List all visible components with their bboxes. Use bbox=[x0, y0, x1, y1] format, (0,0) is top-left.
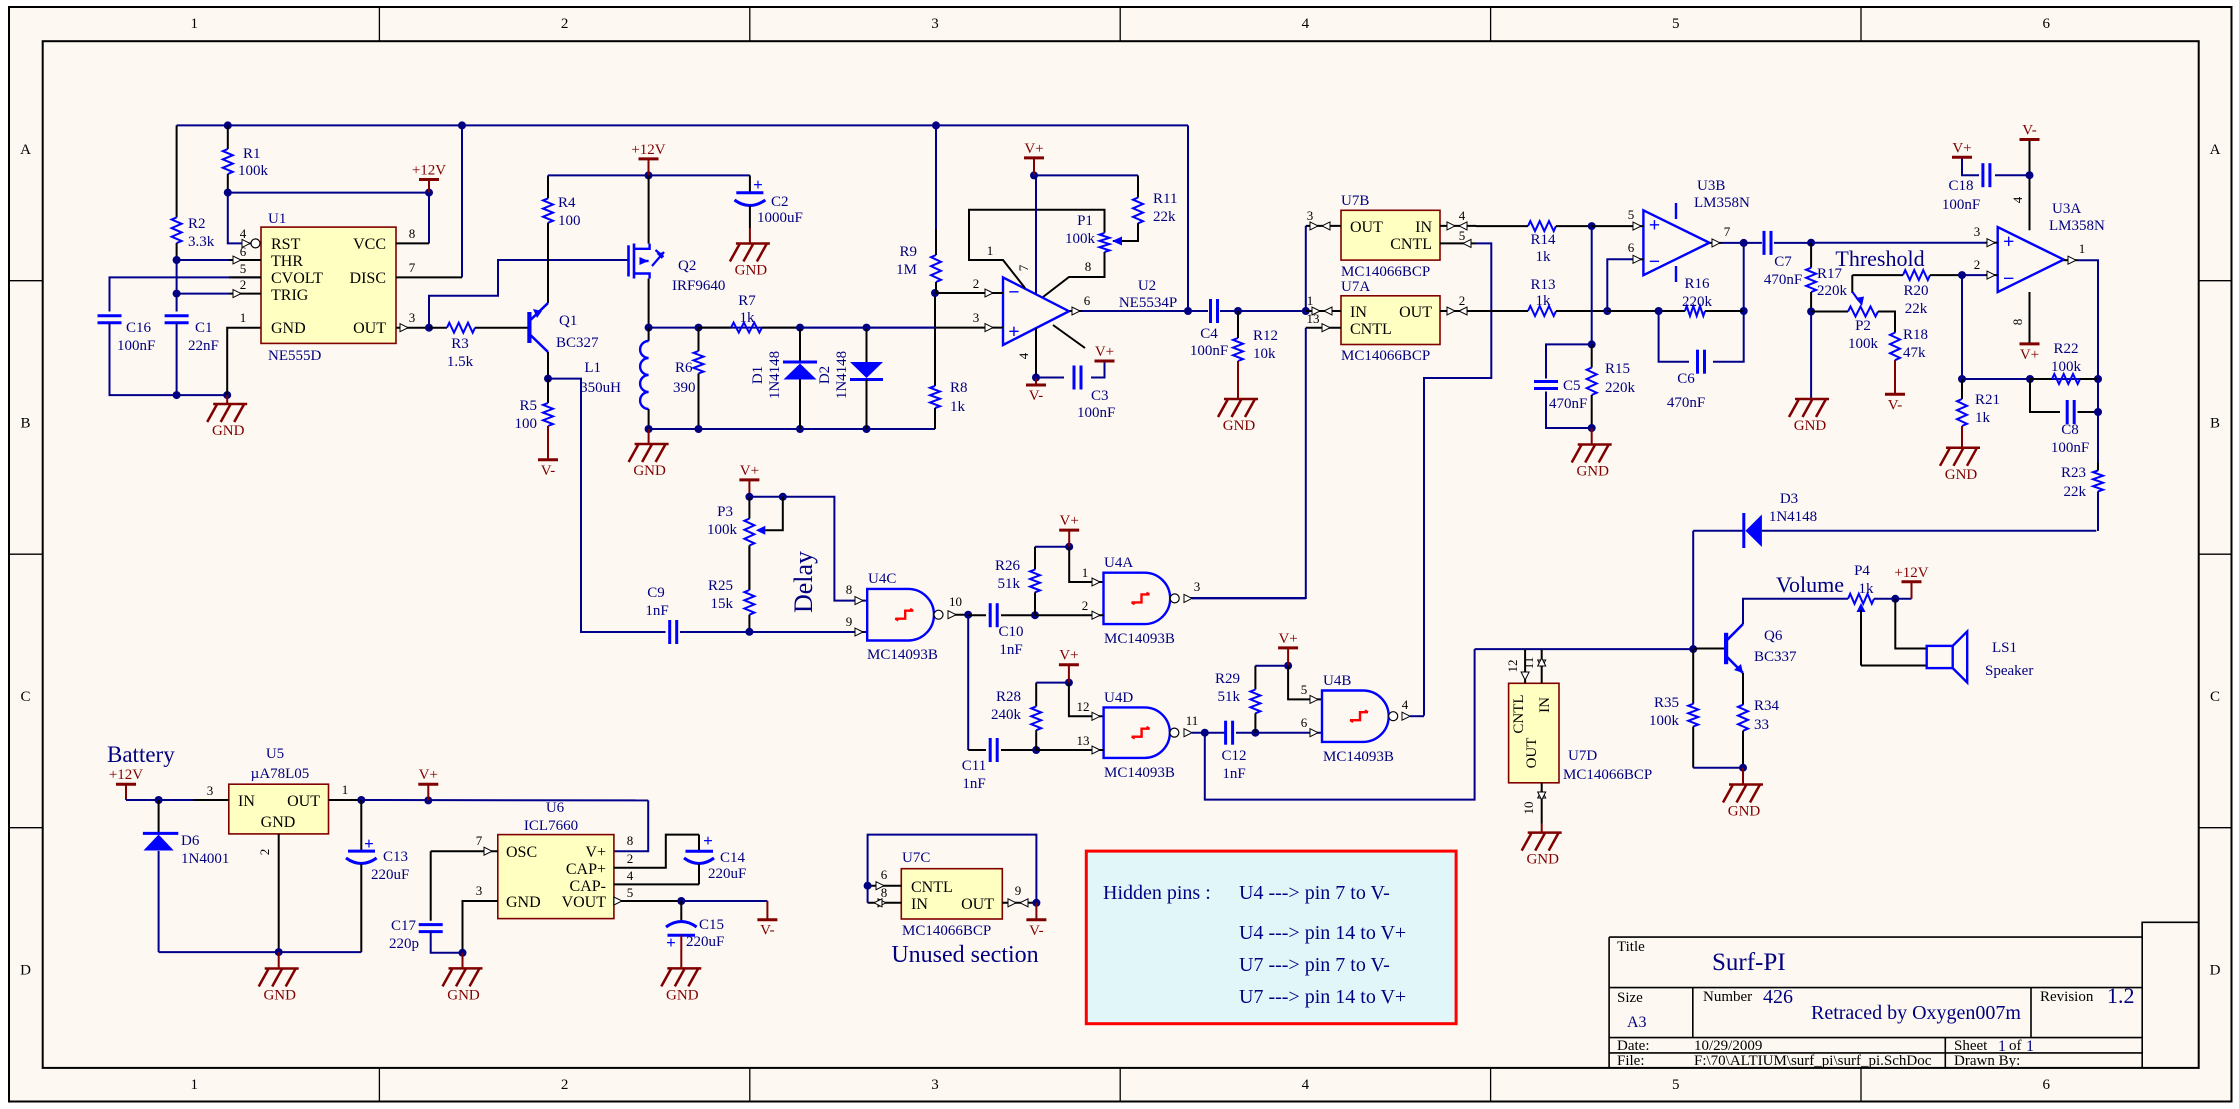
node C6 left bbox=[1655, 307, 1663, 315]
speaker LS1 bbox=[1927, 646, 1953, 668]
U4B pin4 out bbox=[1402, 712, 1410, 720]
U4A pin3 out bbox=[1184, 594, 1192, 602]
svg-text:ICL7660: ICL7660 bbox=[524, 818, 578, 834]
resistor R23 bbox=[2097, 463, 2099, 471]
svg-text:1k: 1k bbox=[1975, 410, 1991, 426]
resistor R20 bbox=[1852, 274, 1903, 276]
svg-text:P2: P2 bbox=[1855, 318, 1871, 334]
svg-text:4: 4 bbox=[1302, 16, 1310, 32]
U3B pin5 stub bbox=[1592, 225, 1644, 227]
wire pin6 up bbox=[1607, 259, 1634, 311]
node THR junction bbox=[173, 256, 181, 264]
U4C pin8 stub bbox=[855, 597, 863, 605]
IC body U7A MC14066BCP bbox=[1341, 296, 1440, 345]
svg-text:GND: GND bbox=[447, 987, 480, 1003]
resistor R28 bbox=[1035, 683, 1037, 707]
svg-text:220k: 220k bbox=[1817, 283, 1848, 299]
svg-text:V-: V- bbox=[1029, 923, 1043, 939]
ground U6 GND bbox=[443, 968, 483, 986]
node C8 right bbox=[2094, 408, 2102, 416]
U6 pin5 stub bbox=[614, 900, 681, 902]
node R6 top bbox=[695, 324, 703, 332]
wire C8 loop left bbox=[2030, 379, 2060, 412]
svg-text:2: 2 bbox=[240, 277, 247, 292]
svg-text:4: 4 bbox=[2010, 196, 2025, 203]
capacitor C6 470nF bbox=[1696, 350, 1699, 374]
wire R21 drop bbox=[1961, 275, 1963, 379]
U6 pin3 stub bbox=[463, 901, 498, 953]
svg-text:R29: R29 bbox=[1215, 671, 1240, 687]
svg-text:6: 6 bbox=[2042, 1077, 2050, 1093]
svg-text:22k: 22k bbox=[1153, 209, 1176, 225]
node top-rail R1 junction bbox=[224, 121, 232, 129]
svg-text:U7C: U7C bbox=[902, 850, 930, 866]
resistor R29 bbox=[1254, 666, 1256, 690]
wire out down bbox=[2097, 379, 2099, 412]
U4B pin6 stub bbox=[1310, 729, 1318, 737]
svg-text:7: 7 bbox=[1724, 224, 1731, 239]
svg-text:Unused section: Unused section bbox=[891, 942, 1038, 968]
svg-text:Battery: Battery bbox=[107, 742, 175, 767]
svg-text:IN: IN bbox=[1350, 304, 1367, 321]
node U3B out bbox=[1740, 239, 1748, 247]
node out R22 bbox=[2094, 375, 2102, 383]
node C13 top bbox=[357, 796, 365, 804]
ground coil GND bbox=[629, 444, 669, 462]
svg-text:6: 6 bbox=[881, 867, 888, 882]
svg-text:GND: GND bbox=[1576, 464, 1609, 480]
node R17 junction bbox=[1807, 239, 1815, 247]
svg-text:R15: R15 bbox=[1605, 361, 1630, 377]
svg-text:8: 8 bbox=[846, 582, 853, 597]
node R26 bottom bbox=[1031, 611, 1039, 619]
svg-text:R4: R4 bbox=[558, 195, 576, 211]
wire R13 row right bbox=[1607, 310, 1685, 312]
svg-text:100nF: 100nF bbox=[1942, 197, 1980, 213]
op-amp U2 NE5534P bbox=[1003, 277, 1069, 345]
svg-text:1: 1 bbox=[240, 310, 247, 325]
svg-text:MC14093B: MC14093B bbox=[867, 647, 938, 663]
U1 pin2 stub bbox=[177, 293, 229, 295]
wire top rail net555 bbox=[177, 124, 1188, 126]
resistor R2 bbox=[176, 125, 178, 217]
svg-text:10k: 10k bbox=[1253, 346, 1276, 362]
wire C16 bottom bbox=[110, 323, 228, 395]
node U7C right bbox=[1032, 899, 1040, 907]
svg-text:9: 9 bbox=[846, 614, 853, 629]
wire R23 top bbox=[2097, 412, 2099, 463]
svg-text:100nF: 100nF bbox=[2051, 440, 2089, 456]
U2 pin7 supply bbox=[1035, 175, 1037, 294]
svg-text:VOUT: VOUT bbox=[562, 894, 607, 911]
svg-text:22k: 22k bbox=[1905, 301, 1928, 317]
svg-text:of: of bbox=[2009, 1038, 2022, 1054]
svg-text:+: + bbox=[1008, 321, 1019, 343]
power V+ U5 bbox=[418, 783, 438, 786]
svg-text:240k: 240k bbox=[991, 707, 1022, 723]
node TRIG junction bbox=[173, 290, 181, 298]
svg-text:R1: R1 bbox=[243, 146, 261, 162]
node top-rail DISC junction bbox=[458, 121, 466, 129]
resistor R16 bbox=[1659, 310, 1685, 312]
wire C11 row bbox=[968, 749, 986, 751]
svg-text:V-: V- bbox=[760, 923, 774, 939]
node pin4 bbox=[1032, 374, 1040, 382]
svg-text:MC14093B: MC14093B bbox=[1104, 765, 1175, 781]
U3A pin8 wire bbox=[2029, 292, 2031, 344]
node D6 junction bbox=[155, 796, 163, 804]
svg-text:5: 5 bbox=[1459, 228, 1466, 243]
svg-text:100nF: 100nF bbox=[1190, 343, 1228, 359]
svg-text:1: 1 bbox=[342, 782, 349, 797]
svg-text:D: D bbox=[2210, 963, 2221, 979]
node C9 R25 bbox=[745, 628, 753, 636]
svg-text:C11: C11 bbox=[962, 758, 986, 774]
svg-text:5: 5 bbox=[1301, 682, 1308, 697]
op-amp U3A LM358N bbox=[1998, 227, 2064, 292]
svg-text:22k: 22k bbox=[2064, 484, 2087, 500]
svg-text:−: − bbox=[2003, 268, 2014, 290]
svg-text:LS1: LS1 bbox=[1992, 640, 2017, 656]
wire C10 left bbox=[968, 614, 986, 616]
svg-text:100k: 100k bbox=[1065, 231, 1096, 247]
svg-text:U6: U6 bbox=[546, 800, 565, 816]
node L1 bottom bbox=[645, 425, 653, 433]
svg-text:4: 4 bbox=[240, 226, 247, 241]
ground C2 GND bbox=[730, 244, 770, 262]
node C8 left bbox=[2026, 375, 2034, 383]
svg-text:+: + bbox=[1649, 214, 1660, 236]
svg-text:RST: RST bbox=[271, 236, 301, 253]
svg-text:6: 6 bbox=[1301, 715, 1308, 730]
node R34 gnd bbox=[1739, 764, 1747, 772]
svg-text:1N4148: 1N4148 bbox=[767, 351, 783, 399]
potentiometer P1 100k bbox=[1100, 233, 1110, 252]
resistor R12 bbox=[1237, 311, 1239, 338]
resistor R9 bbox=[935, 229, 937, 255]
node C4 junction bbox=[1184, 307, 1192, 315]
svg-text:1nF: 1nF bbox=[999, 642, 1022, 658]
capacitor C15 220uF bbox=[680, 901, 682, 922]
wire DISC up bbox=[461, 125, 463, 277]
wire U4D out down bbox=[1205, 649, 1475, 800]
svg-text:U4A: U4A bbox=[1104, 555, 1133, 571]
svg-text:Surf-PI: Surf-PI bbox=[1712, 949, 1786, 976]
power V- U3A bbox=[2020, 138, 2040, 141]
U4D pin11 out bbox=[1184, 729, 1192, 737]
svg-text:470nF: 470nF bbox=[1549, 396, 1587, 412]
wire U7C link bbox=[867, 886, 869, 903]
wire Q1 collector down bbox=[547, 352, 549, 379]
svg-text:1: 1 bbox=[1307, 293, 1314, 308]
power V- R5 bbox=[538, 458, 558, 461]
wire U7B cntl net bbox=[1424, 243, 1491, 715]
svg-text:CNTL: CNTL bbox=[1511, 694, 1527, 733]
svg-text:100: 100 bbox=[558, 213, 581, 229]
svg-text:1.5k: 1.5k bbox=[447, 354, 474, 370]
svg-text:LM358N: LM358N bbox=[2049, 218, 2105, 234]
wire C11 right bbox=[1001, 749, 1036, 751]
power V+ U4A bbox=[1059, 529, 1079, 532]
wire bottom rail U5 bbox=[159, 951, 362, 953]
svg-text:+: + bbox=[2003, 231, 2014, 253]
U6 pin2 stub bbox=[614, 835, 699, 868]
svg-text:VCC: VCC bbox=[353, 236, 386, 253]
ground U5 GND bbox=[259, 969, 299, 987]
svg-text:Number: Number bbox=[1703, 989, 1752, 1005]
svg-text:D: D bbox=[20, 963, 31, 979]
svg-text:3: 3 bbox=[409, 310, 416, 325]
node C15 top bbox=[677, 897, 685, 905]
resistor R26 bbox=[1034, 547, 1036, 570]
svg-text:+: + bbox=[703, 831, 713, 850]
svg-text:P1: P1 bbox=[1077, 213, 1093, 229]
wire C4 right bbox=[1220, 310, 1306, 312]
node R28 bottom bbox=[1032, 746, 1040, 754]
power V- U2 bbox=[1026, 384, 1046, 387]
ground P2 GND bbox=[1789, 399, 1829, 417]
wire pin13 to U4A bbox=[1190, 328, 1306, 598]
svg-text:OSC: OSC bbox=[506, 844, 537, 861]
svg-text:CNTL: CNTL bbox=[1350, 321, 1392, 338]
wire U7D top net bbox=[1475, 648, 1694, 650]
transistor Q1 BC327 bbox=[529, 303, 548, 352]
node V+ U4D bbox=[1065, 679, 1073, 687]
diode D3 1N4148 bbox=[1693, 530, 1744, 532]
svg-text:4: 4 bbox=[1016, 352, 1031, 359]
svg-text:A3: A3 bbox=[1627, 1014, 1647, 1031]
svg-text:3: 3 bbox=[207, 783, 214, 798]
wire V+ to R11 bbox=[1034, 174, 1138, 176]
svg-text:R13: R13 bbox=[1530, 277, 1555, 293]
potentiometer P2 100k bbox=[1811, 311, 1848, 313]
svg-text:GND: GND bbox=[1728, 804, 1761, 820]
svg-text:6: 6 bbox=[1628, 240, 1635, 255]
capacitor C8 100nF bbox=[2066, 400, 2069, 424]
node +12V Q2 bbox=[645, 171, 653, 179]
resistor R14 bbox=[1476, 225, 1528, 227]
U3A pin4 wire bbox=[2029, 140, 2031, 231]
svg-text:V+: V+ bbox=[1060, 513, 1079, 529]
svg-text:6: 6 bbox=[1084, 293, 1091, 308]
U1 pin5 stub bbox=[229, 276, 261, 278]
ground Q6 GND bbox=[1723, 785, 1763, 803]
svg-text:U3B: U3B bbox=[1697, 178, 1725, 194]
svg-text:V+: V+ bbox=[740, 463, 759, 479]
wire emitter down bbox=[1742, 673, 1744, 705]
wire speaker bottom bbox=[1861, 665, 1927, 667]
svg-text:IN: IN bbox=[238, 793, 255, 810]
resistor R8 bbox=[934, 293, 936, 386]
IC body U1 NE555D bbox=[261, 227, 396, 343]
capacitor C11 1nF bbox=[989, 738, 992, 762]
wire Q1 emitter up bbox=[547, 223, 549, 303]
svg-text:U7 ---> pin 14 to V+: U7 ---> pin 14 to V+ bbox=[1239, 986, 1406, 1008]
node fb right bbox=[1740, 307, 1748, 315]
U4C pin10 out bbox=[950, 614, 968, 616]
NAND gate U4B MC14093B bbox=[1322, 691, 1389, 742]
svg-text:C18: C18 bbox=[1948, 178, 1973, 194]
wire D3 right up bbox=[2097, 491, 2099, 530]
node R21 top bbox=[1958, 375, 1966, 383]
svg-text:10: 10 bbox=[1521, 802, 1536, 815]
wire R11 to wiper bbox=[1113, 223, 1138, 241]
svg-text:A: A bbox=[2210, 142, 2221, 158]
svg-text:100nF: 100nF bbox=[1077, 405, 1115, 421]
svg-text:U3A: U3A bbox=[2052, 201, 2081, 217]
node U6 gnd bbox=[459, 949, 467, 957]
svg-text:IRF9640: IRF9640 bbox=[672, 278, 725, 294]
U7A pin13 stub bbox=[1306, 327, 1341, 329]
ground R15 GND bbox=[1572, 445, 1612, 463]
U1 pin3 stub bbox=[396, 327, 429, 329]
node Q1 collector bbox=[544, 375, 552, 383]
svg-text:11: 11 bbox=[1186, 713, 1199, 728]
U7A pin1 stub bbox=[1306, 310, 1341, 312]
wire P3 to R25 bbox=[748, 546, 750, 591]
wire C8 loop right bbox=[2078, 411, 2099, 413]
power V+ C3 bbox=[1095, 360, 1115, 363]
svg-text:3: 3 bbox=[1307, 208, 1314, 223]
svg-text:7: 7 bbox=[476, 833, 483, 848]
wire P3 top net bbox=[749, 497, 867, 601]
wire coil top rail bbox=[649, 327, 936, 329]
svg-text:R28: R28 bbox=[996, 689, 1021, 705]
svg-text:V-: V- bbox=[541, 463, 555, 479]
wire U4C out down bbox=[967, 615, 969, 750]
node wiper branch bbox=[779, 493, 787, 501]
svg-text:NE5534P: NE5534P bbox=[1119, 295, 1177, 311]
svg-text:U7B: U7B bbox=[1341, 193, 1369, 209]
U6 pin7 stub bbox=[431, 850, 498, 852]
diode D6 1N4001 bbox=[158, 800, 160, 833]
node U4D out bbox=[1201, 729, 1209, 737]
svg-text:Speaker: Speaker bbox=[1985, 663, 2033, 679]
U4D pin12 stub bbox=[1092, 712, 1100, 720]
svg-text:1: 1 bbox=[2026, 1038, 2034, 1055]
wire VCC drop bbox=[428, 193, 430, 244]
svg-text:R2: R2 bbox=[188, 216, 206, 232]
U5 pin1 stub bbox=[329, 799, 362, 801]
node pin6 junction bbox=[1603, 307, 1611, 315]
resistor R15 bbox=[1591, 344, 1593, 367]
svg-text:OUT: OUT bbox=[1399, 304, 1432, 321]
svg-text:GND: GND bbox=[633, 463, 666, 479]
svg-text:CNTL: CNTL bbox=[911, 879, 953, 896]
svg-text:1: 1 bbox=[987, 243, 994, 258]
svg-text:D1: D1 bbox=[750, 366, 766, 384]
svg-text:100: 100 bbox=[515, 416, 538, 432]
svg-text:100k: 100k bbox=[1848, 336, 1879, 352]
svg-text:1: 1 bbox=[190, 16, 198, 32]
svg-text:U1: U1 bbox=[268, 211, 286, 227]
capacitor C13 220uF bbox=[360, 800, 362, 851]
svg-text:5: 5 bbox=[627, 885, 634, 900]
wire out-to-gate bbox=[429, 260, 628, 328]
node C18 junction bbox=[2026, 171, 2034, 179]
node D1 top bbox=[796, 324, 804, 332]
svg-text:3: 3 bbox=[973, 310, 980, 325]
svg-text:7: 7 bbox=[409, 260, 416, 275]
wire CVOLT to C16 bbox=[110, 277, 262, 311]
svg-text:U4D: U4D bbox=[1104, 690, 1133, 706]
capacitor C17 220p bbox=[419, 923, 443, 926]
svg-text:6: 6 bbox=[2042, 16, 2050, 32]
svg-text:R12: R12 bbox=[1253, 328, 1278, 344]
svg-text:CVOLT: CVOLT bbox=[271, 270, 323, 287]
svg-text:Q6: Q6 bbox=[1764, 628, 1783, 644]
svg-text:C15: C15 bbox=[699, 917, 724, 933]
wire C12 right bbox=[1236, 732, 1322, 734]
capacitor C18 100nF bbox=[1981, 163, 1984, 187]
svg-text:U4 ---> pin 7 to V-: U4 ---> pin 7 to V- bbox=[1239, 882, 1390, 904]
svg-text:8: 8 bbox=[1085, 259, 1092, 274]
svg-text:13: 13 bbox=[1077, 733, 1090, 748]
svg-text:13: 13 bbox=[1307, 311, 1320, 326]
svg-text:MC14066BCP: MC14066BCP bbox=[1341, 348, 1430, 364]
svg-text:C13: C13 bbox=[383, 849, 408, 865]
svg-text:2: 2 bbox=[1974, 257, 1981, 272]
svg-text:8: 8 bbox=[2010, 319, 2025, 326]
svg-text:C10: C10 bbox=[998, 624, 1023, 640]
power +12V P4 bbox=[1902, 580, 1922, 583]
resistor R18 bbox=[1894, 312, 1896, 333]
svg-text:MC14093B: MC14093B bbox=[1323, 749, 1394, 765]
wire pin1 drop bbox=[1069, 547, 1103, 582]
title block frame bbox=[1609, 922, 2199, 1068]
resistor R17 bbox=[1810, 243, 1812, 268]
wire C7 right bbox=[1774, 242, 1811, 244]
wire Q6 collector bbox=[1743, 599, 1848, 624]
svg-text:V-: V- bbox=[1029, 388, 1043, 404]
wire C6 loop left bbox=[1659, 311, 1689, 362]
capacitor C3 100nF bbox=[1073, 366, 1076, 390]
svg-text:5: 5 bbox=[1672, 16, 1680, 32]
wire pin3 rail bbox=[800, 327, 936, 329]
ground R12 GND bbox=[1218, 399, 1258, 417]
resistor R4 bbox=[547, 175, 549, 198]
power V+ U3A bbox=[2020, 342, 2040, 345]
svg-text:GND: GND bbox=[1223, 418, 1256, 434]
wire U2 out bbox=[1082, 310, 1208, 312]
resistor R25 bbox=[748, 546, 750, 591]
svg-text:IN: IN bbox=[911, 896, 928, 913]
svg-text:51k: 51k bbox=[998, 576, 1021, 592]
svg-text:+: + bbox=[666, 933, 676, 952]
wire U3A out bbox=[2078, 260, 2098, 379]
U7C pin6 stub bbox=[868, 885, 902, 887]
svg-text:470nF: 470nF bbox=[1764, 272, 1802, 288]
diode D1 1N4148 bbox=[799, 328, 801, 362]
power V- U6 bbox=[757, 918, 777, 921]
op-amp U3B LM358N bbox=[1643, 210, 1709, 275]
svg-text:NE555D: NE555D bbox=[268, 348, 321, 364]
potentiometer P4 1k bbox=[1848, 594, 1874, 604]
svg-text:C: C bbox=[20, 689, 30, 705]
svg-text:µA78L05: µA78L05 bbox=[251, 766, 310, 782]
wire C5 loop bbox=[1546, 344, 1592, 378]
svg-text:1: 1 bbox=[1082, 565, 1089, 580]
node Q6 base node bbox=[1689, 645, 1697, 653]
power V+ U4D bbox=[1059, 663, 1079, 666]
U1 pin6 stub bbox=[177, 259, 253, 261]
wire battery rail bbox=[126, 799, 229, 801]
svg-text:6: 6 bbox=[240, 244, 247, 259]
wire R14 node down bbox=[1591, 226, 1593, 344]
svg-text:1k: 1k bbox=[740, 310, 756, 326]
svg-text:U2: U2 bbox=[1138, 278, 1156, 294]
potentiometer P3 100k bbox=[744, 519, 754, 546]
